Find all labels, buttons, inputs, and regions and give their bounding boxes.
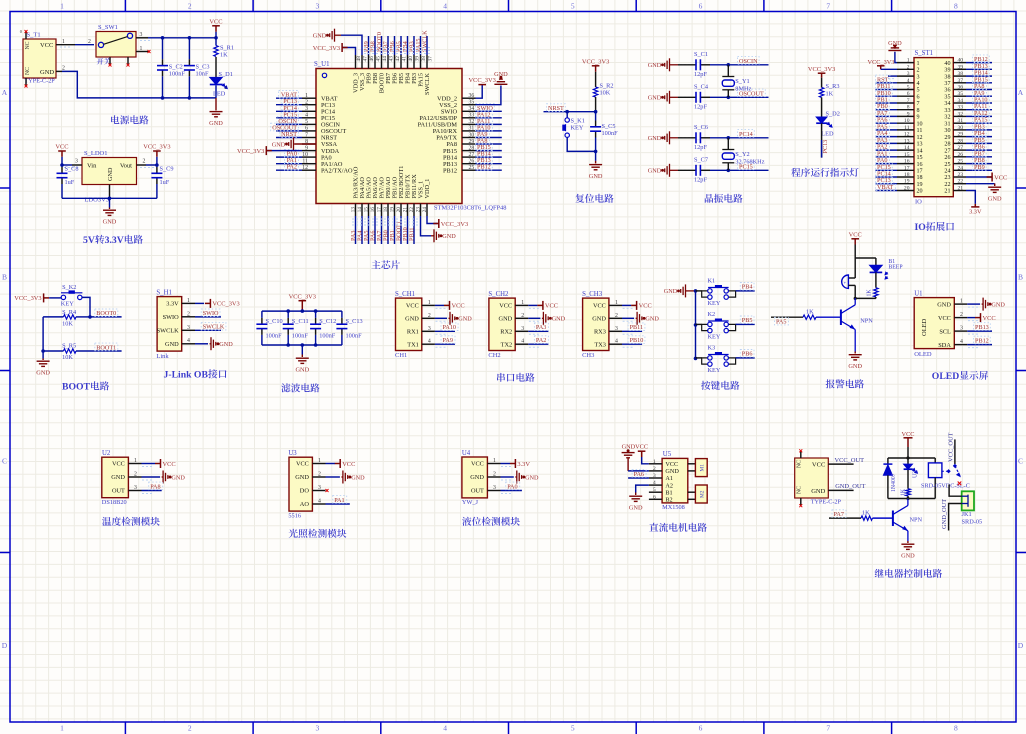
ground GND (U1 pin 8 VSSA) (272, 138, 316, 151)
svg-text:VCC_OUT: VCC_OUT (835, 457, 865, 464)
capacitor S_C7 12pF (678, 157, 710, 184)
wire + net label PA5 + resistor 1K (base) (771, 308, 841, 325)
ground GND (H1 pin 4) (195, 337, 233, 350)
svg-text:28: 28 (958, 138, 964, 144)
svg-text:31: 31 (944, 121, 950, 127)
wire + net label RST (ST1 pin 4) (876, 75, 898, 83)
wire + net label PB7 (U1 pin 43) (382, 36, 389, 55)
svg-text:GND: GND (848, 363, 862, 370)
svg-text:3: 3 (615, 326, 618, 332)
svg-text:VCC_3V3: VCC_3V3 (808, 66, 835, 73)
svg-text:GND: GND (313, 33, 327, 40)
svg-text:1: 1 (653, 459, 656, 465)
svg-text:13: 13 (917, 142, 923, 148)
wire + net label PA9 (435, 336, 455, 344)
svg-text:S_R3: S_R3 (826, 83, 840, 90)
key S_K1 KEY (562, 112, 595, 152)
wire + net label PB13 (U1 pin 26) (476, 156, 502, 164)
svg-text:C: C (2, 457, 7, 466)
svg-text:1: 1 (187, 298, 190, 304)
svg-text:38: 38 (944, 74, 950, 80)
svg-text:30: 30 (958, 125, 964, 131)
svg-text:18: 18 (383, 207, 389, 213)
wire relay bottom rail (888, 498, 935, 500)
wire + net label PB10 (622, 336, 645, 344)
svg-text:1K: 1K (867, 289, 873, 297)
wire R2 to node (595, 97, 597, 112)
svg-text:2: 2 (225, 85, 227, 90)
svg-text:2: 2 (187, 311, 190, 317)
svg-text:D: D (2, 641, 8, 650)
capacitor S_C13 100nF (336, 311, 362, 345)
no-connect U3 pin 3 DO (326, 489, 329, 492)
svg-text:17: 17 (904, 165, 910, 171)
resistor 1K (901, 488, 911, 498)
svg-text:3.3V: 3.3V (517, 461, 530, 468)
svg-text:23: 23 (958, 172, 964, 178)
svg-text:1: 1 (305, 93, 308, 99)
svg-text:14: 14 (917, 148, 923, 154)
svg-text:18: 18 (904, 172, 910, 178)
ground GND (664, 284, 696, 297)
svg-text:14: 14 (357, 207, 363, 213)
capacitor S_C4 12pF (678, 84, 710, 111)
wire + net label PB5 (ST1 pin 28) (966, 136, 992, 144)
svg-text:4: 4 (960, 339, 963, 345)
ground GND (37, 359, 50, 367)
svg-text:CH2: CH2 (488, 352, 500, 359)
title 直流电机电路 (649, 523, 658, 532)
svg-text:NC: NC (797, 486, 803, 494)
title 主芯片 (372, 260, 381, 269)
wire + net label PA8 (ST1 pin 36) (966, 82, 992, 90)
wire + net label PA12 (ST1 pin 32) (966, 109, 992, 117)
svg-text:1uF: 1uF (65, 179, 75, 186)
wire + net label PA15 (U1 pin 38) (415, 36, 422, 55)
wire + net label SWCLK (195, 322, 226, 330)
svg-text:VCC_3V3: VCC_3V3 (14, 295, 41, 302)
svg-text:PB12: PB12 (477, 164, 491, 171)
ground GND (U5 pin 2) (622, 444, 649, 471)
MCU U1 STM32F103C8T6 (314, 61, 506, 212)
wire + net label PA4 (U1 pin 14) (356, 216, 363, 244)
svg-text:2: 2 (653, 466, 656, 472)
svg-text:4: 4 (443, 724, 447, 733)
wire + net label PB6 (736, 350, 755, 358)
svg-text:40: 40 (408, 56, 414, 62)
svg-text:3: 3 (960, 326, 963, 332)
svg-text:S_C1: S_C1 (694, 51, 708, 58)
wire + net label PA7 + resistor 1K (base) (829, 510, 893, 521)
wire + net label PB5 (736, 316, 755, 324)
wire + net label PB10 (U1 pin 21) (402, 216, 409, 244)
header S_H1 Link (156, 289, 195, 360)
power flag 3.3V (ST1 pin 21) (966, 191, 982, 216)
wire + net label PB13 (967, 323, 992, 331)
svg-text:VCC: VCC (296, 461, 309, 468)
svg-text:5: 5 (305, 119, 308, 125)
wire left vertical (42, 317, 44, 359)
svg-text:42: 42 (395, 56, 401, 62)
wire + net label PC13 (822, 123, 829, 157)
svg-text:37: 37 (944, 81, 950, 87)
svg-text:1: 1 (493, 458, 496, 464)
svg-text:34: 34 (469, 106, 475, 112)
wire ST1 pin 3 (888, 75, 897, 77)
svg-text:VCC_3V3: VCC_3V3 (868, 59, 895, 66)
svg-text:4: 4 (428, 339, 431, 345)
title 滤波电路 (281, 383, 290, 392)
wire + net label OSCIN (710, 57, 769, 65)
wire + net label PB12 (U1 pin 25) (476, 163, 502, 171)
svg-text:PC13: PC13 (822, 140, 829, 154)
title 程序运行指示灯 (791, 168, 800, 177)
svg-text:32.768KHz: 32.768KHz (735, 158, 764, 165)
svg-text:VCC_3V3: VCC_3V3 (237, 148, 264, 155)
connector CH3 (582, 291, 635, 359)
wire bottom rail (262, 344, 342, 346)
svg-text:7: 7 (907, 98, 910, 104)
svg-text:33: 33 (944, 108, 950, 114)
wire + net label PA7 (ST1 pin 9) (876, 109, 898, 117)
capacitor S_C11 100nF (283, 311, 309, 345)
wire + net label PA7 (U1 pin 17) (376, 216, 383, 244)
svg-text:48: 48 (356, 56, 362, 62)
svg-text:9: 9 (907, 111, 910, 117)
svg-text:VCC_3V3: VCC_3V3 (313, 45, 340, 52)
wire + net label PB14 (ST1 pin 38) (966, 68, 992, 76)
power flag VCC (849, 231, 862, 258)
svg-text:40: 40 (958, 58, 964, 64)
svg-text:46: 46 (369, 56, 375, 62)
svg-text:22: 22 (409, 207, 415, 213)
svg-text:12pF: 12pF (694, 103, 707, 110)
ground GND (crystal row OSCOUT) (648, 91, 678, 104)
svg-text:GND: GND (648, 62, 662, 69)
capacitor S_C9 1uF (151, 165, 173, 198)
svg-text:PA2: PA2 (287, 164, 297, 171)
svg-text:GND: GND (405, 316, 419, 323)
svg-text:2: 2 (188, 2, 192, 11)
svg-text:12: 12 (302, 165, 308, 171)
svg-text:5: 5 (653, 487, 656, 493)
svg-text:3: 3 (316, 724, 320, 733)
relay connector JK1 SRD-05 (962, 491, 983, 525)
svg-text:GND: GND (295, 367, 309, 374)
wire + net label PB4 (ST1 pin 29) (966, 129, 992, 137)
svg-text:25: 25 (944, 162, 950, 168)
svg-text:VCC_3V3: VCC_3V3 (212, 301, 239, 308)
svg-text:VCC: VCC (545, 303, 558, 310)
svg-text:24: 24 (422, 207, 428, 213)
wire + net label PB11 (622, 323, 645, 331)
wire (821, 97, 823, 117)
svg-text:1: 1 (428, 300, 431, 306)
wire + net label PA15 (ST1 pin 31) (966, 116, 992, 124)
svg-text:S_CH1: S_CH1 (395, 291, 415, 298)
wire + net label PC14 (ST1 pin 18) (876, 169, 898, 177)
svg-text:29: 29 (469, 139, 475, 145)
wire + net label PA6 (U5 pin 3) (628, 470, 649, 478)
svg-text:100nF: 100nF (266, 333, 283, 340)
svg-text:5: 5 (907, 85, 910, 91)
svg-text:4: 4 (653, 480, 656, 486)
svg-text:VDD_1: VDD_1 (424, 179, 431, 199)
svg-text:YW_J: YW_J (462, 499, 479, 506)
connector S_T1 TYPE-C-2P (20, 29, 56, 88)
svg-text:GND: GND (645, 316, 659, 323)
svg-text:2: 2 (134, 472, 137, 478)
header pin stubs (897, 58, 966, 192)
power flag VCC_3V3 (U1 pin 9 VDDA) (237, 146, 302, 155)
svg-text:29: 29 (944, 135, 950, 141)
wire + net label GND_OUT (828, 483, 865, 490)
capacitor S_C3 10nF (184, 38, 210, 98)
svg-text:25: 25 (469, 165, 475, 171)
svg-text:32: 32 (958, 111, 964, 117)
svg-text:SRD-05: SRD-05 (962, 519, 983, 526)
svg-text:S_C7: S_C7 (694, 157, 708, 164)
svg-text:OLED: OLED (921, 318, 928, 336)
svg-text:27: 27 (469, 152, 475, 158)
svg-text:VCC: VCC (994, 174, 1007, 181)
svg-text:1: 1 (318, 458, 321, 464)
svg-text:13: 13 (904, 138, 910, 144)
svg-text:VBAT: VBAT (877, 184, 893, 191)
svg-text:SWCLK: SWCLK (203, 324, 225, 331)
power flag VCC (CH1 pin 1) (435, 301, 465, 310)
svg-text:VCC: VCC (163, 461, 176, 468)
svg-text:2: 2 (305, 100, 308, 106)
connector CH2 (488, 291, 541, 359)
svg-text:GND: GND (592, 316, 606, 323)
power flag VCC_3V3 (592, 66, 600, 72)
LED S_D2 (816, 111, 840, 138)
svg-text:5: 5 (571, 2, 575, 11)
ground GND (109, 198, 111, 207)
svg-text:39: 39 (958, 64, 964, 70)
svg-text:GND: GND (589, 173, 603, 180)
svg-text:NC: NC (797, 460, 803, 468)
svg-text:VCC: VCC (499, 303, 512, 310)
svg-text:+: + (844, 280, 847, 285)
svg-text:2: 2 (521, 313, 524, 319)
svg-text:10: 10 (917, 121, 923, 127)
svg-text:K1: K1 (708, 278, 716, 285)
svg-text:VCC_OUT: VCC_OUT (947, 432, 954, 462)
wire + net label PA5 (U1 pin 15) (363, 216, 370, 244)
svg-text:3: 3 (75, 159, 78, 165)
power flag VCC (58, 151, 66, 157)
power flag VCC (212, 26, 220, 32)
wire + net label PA2 (528, 336, 548, 344)
svg-text:S_D1: S_D1 (219, 71, 233, 78)
svg-text:24: 24 (944, 169, 950, 175)
svg-text:100nF: 100nF (602, 130, 619, 137)
wire + net label VCC_OUT (828, 457, 864, 464)
svg-text:GND: GND (209, 120, 223, 127)
power flag VCC_3V3 (818, 73, 826, 78)
wire + net label PA8 (142, 482, 163, 490)
svg-text:LED: LED (213, 90, 226, 97)
svg-text:23: 23 (416, 207, 422, 213)
ground GND (U1 pin 47 VSS_3) (313, 29, 362, 55)
svg-text:M1: M1 (700, 464, 706, 472)
svg-text:AO: AO (300, 501, 310, 508)
svg-text:VCC: VCC (639, 303, 652, 310)
wire + net label SWCLK (U1 pin 37) (421, 30, 428, 55)
wire + net label PB3 (U1 pin 39) (408, 36, 415, 55)
relay coil U6 (921, 458, 970, 499)
wire + net label PB9 (ST1 pin 24) (966, 163, 992, 171)
svg-text:S_D2: S_D2 (826, 111, 840, 118)
svg-text:NPN: NPN (910, 516, 923, 523)
svg-text:S_C6: S_C6 (694, 124, 708, 131)
svg-text:S_R2: S_R2 (600, 83, 614, 90)
svg-text:27: 27 (944, 148, 950, 154)
svg-text:LED: LED (821, 131, 834, 138)
svg-text:RX2: RX2 (500, 329, 512, 336)
title 晶振电路 (705, 194, 713, 203)
svg-text:7: 7 (305, 132, 308, 138)
svg-text:11: 11 (904, 125, 910, 131)
wire + net label NRST (U1 pin 7) (276, 130, 302, 138)
svg-text:GND: GND (648, 168, 662, 175)
svg-text:JK1: JK1 (962, 511, 972, 518)
svg-text:IO: IO (915, 199, 922, 206)
svg-text:IO: IO (915, 222, 927, 233)
svg-text:39: 39 (944, 68, 950, 74)
svg-text:20: 20 (917, 189, 923, 195)
svg-text:3: 3 (653, 473, 656, 479)
svg-text:SRD-05VDC-SL-C: SRD-05VDC-SL-C (921, 483, 970, 490)
wire top node (855, 257, 876, 259)
svg-text:GND: GND (171, 474, 185, 481)
svg-text:GND: GND (937, 301, 951, 308)
svg-text:Vin: Vin (87, 163, 97, 170)
wire + net label PB11 (U1 pin 22) (408, 216, 415, 244)
selection dots top (364, 47, 432, 49)
wire + net label PA3 (U1 pin 13) (350, 216, 357, 244)
svg-text:100nF: 100nF (346, 333, 363, 340)
svg-text:3.3V: 3.3V (105, 235, 124, 246)
svg-text:8MHz: 8MHz (735, 85, 751, 92)
svg-text:39: 39 (414, 56, 420, 62)
svg-text:GND_OUT: GND_OUT (941, 499, 948, 529)
key K2 KEY (696, 311, 736, 340)
svg-text:U5: U5 (663, 451, 672, 458)
svg-text:VCC: VCC (849, 231, 862, 238)
wire + net label PA3 (528, 323, 548, 331)
title 液位检测模块 (462, 517, 471, 526)
svg-text:GND: GND (648, 135, 662, 142)
power flag VCC (902, 431, 915, 458)
power flag VCC (OLED pin 2) (967, 313, 995, 322)
svg-text:VCC: VCC (112, 461, 125, 468)
svg-text:1: 1 (521, 300, 524, 306)
ground GND (301, 345, 303, 355)
wire + net label PB8 (U1 pin 45) (369, 36, 376, 55)
svg-text:A: A (2, 88, 8, 97)
svg-text:12pF: 12pF (694, 176, 707, 183)
svg-text:S_C10: S_C10 (266, 318, 283, 325)
svg-text:26: 26 (944, 155, 950, 161)
capacitor S_C12 100nF (310, 311, 336, 345)
svg-text:DO: DO (300, 488, 310, 495)
wire + net label PA6 (ST1 pin 10) (876, 116, 898, 124)
display U1 OLED (914, 290, 979, 358)
power flag VCC_3V3 (153, 151, 161, 157)
ground GND (U2 pin 2) (142, 471, 186, 484)
svg-text:1: 1 (907, 58, 910, 64)
diode D1 1N4007 (883, 458, 896, 499)
svg-text:B1: B1 (665, 489, 672, 496)
svg-text:4: 4 (305, 113, 308, 119)
wire + net label PA4 (ST1 pin 12) (876, 129, 898, 137)
svg-text:TYPE-C-2P: TYPE-C-2P (25, 78, 56, 85)
wire + net label VBAT (ST1 pin 20) (876, 183, 898, 191)
wire + net label PC13 (U1 pin 2) (276, 97, 302, 105)
svg-text:VCC: VCC (665, 461, 678, 468)
crystal S_Y2 32.768KHz (722, 136, 764, 172)
svg-text:S_C11: S_C11 (292, 318, 309, 325)
svg-text:37: 37 (427, 56, 433, 62)
wire + net label BOOT1 (U1 pin 20) (395, 216, 402, 244)
svg-text:KEY: KEY (571, 125, 584, 132)
svg-text:GND: GND (499, 316, 513, 323)
wire + net label PA10 (U1 pin 31) (476, 123, 502, 131)
wire switch to JK1 pin 1 (949, 485, 962, 497)
wire + net label PA6 (U1 pin 16) (369, 216, 376, 244)
wire + net label PA11 (U1 pin 32) (476, 117, 502, 125)
selection dots bottom (352, 218, 420, 220)
svg-text:30: 30 (944, 128, 950, 134)
svg-text:GND: GND (165, 341, 179, 348)
svg-text:16: 16 (370, 207, 376, 213)
title 按键电路 (701, 381, 710, 390)
svg-text:40: 40 (944, 61, 950, 67)
svg-text:3: 3 (428, 326, 431, 332)
ground GND (U1 pin 35 VSS_2) (476, 71, 509, 105)
wire + net label PA1 (ST1 pin 15) (876, 149, 898, 157)
connector T2 TYPE-C-2P (795, 449, 842, 507)
svg-text:OLED: OLED (932, 371, 959, 382)
svg-text:1uF: 1uF (160, 179, 170, 186)
wire + net label PA11 (ST1 pin 33) (966, 102, 992, 110)
svg-text:10K: 10K (600, 90, 611, 97)
wire + net label GND_OUT (JK1 pin 2) (941, 499, 962, 531)
svg-text:15: 15 (917, 155, 923, 161)
svg-text:S_Y1: S_Y1 (735, 78, 749, 85)
resistor S_R5 10K (43, 343, 76, 361)
left pin stubs + numbers (302, 93, 316, 171)
svg-text:16: 16 (904, 159, 910, 165)
svg-text:S_C4: S_C4 (694, 84, 709, 91)
svg-text:30: 30 (469, 132, 475, 138)
capacitor S_C1 12pF (678, 51, 710, 78)
svg-text:3: 3 (187, 325, 190, 331)
driver U5 MX1508 (649, 451, 688, 511)
svg-text:A2: A2 (665, 482, 673, 489)
ground GND (OLED pin 1) (967, 298, 1005, 311)
svg-text:16: 16 (917, 162, 923, 168)
svg-text:6: 6 (917, 95, 920, 101)
svg-text:PB11: PB11 (408, 227, 415, 241)
svg-text:2: 2 (615, 313, 618, 319)
svg-text:KEY: KEY (708, 367, 721, 374)
svg-text:100nF: 100nF (319, 333, 336, 340)
svg-text:S_C8: S_C8 (65, 166, 79, 173)
